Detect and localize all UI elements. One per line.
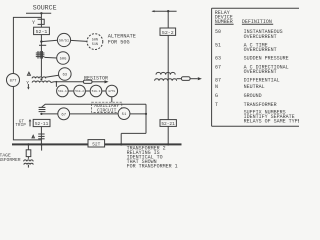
svg-text:FOR TRANSFORMER 1: FOR TRANSFORMER 1 bbox=[127, 164, 178, 169]
VT winding secondary bbox=[24, 163, 33, 164]
wire feeder 2 drop bbox=[167, 11, 169, 28]
svg-text:51G-3: 51G-3 bbox=[92, 90, 101, 93]
relay 50/51 bbox=[57, 33, 70, 46]
VT winding primary bbox=[24, 160, 34, 162]
CT below 52-11 bbox=[38, 134, 44, 139]
feeder stub bbox=[41, 145, 43, 150]
svg-text:TRANSFORMER: TRANSFORMER bbox=[0, 157, 21, 163]
transformer T1 secondary winding bbox=[32, 81, 51, 83]
junction bus 1 bbox=[40, 12, 42, 14]
incoming bus 2 bbox=[153, 10, 177, 12]
svg-text:52-1: 52-1 bbox=[36, 29, 48, 35]
CT bar mark bbox=[39, 44, 46, 46]
junction riser bbox=[145, 113, 147, 115]
T2 neutral grounding resistor R2 bbox=[181, 77, 190, 81]
relay 63 sudden pressure bbox=[59, 68, 72, 81]
VT stub bbox=[27, 165, 29, 168]
svg-text:SOURCE: SOURCE bbox=[33, 5, 57, 12]
header underlines bbox=[215, 23, 234, 25]
relay 67 bbox=[58, 108, 70, 120]
VT wire bbox=[27, 145, 29, 158]
svg-text:50/51: 50/51 bbox=[59, 38, 69, 42]
wire 63 to transformer tank bbox=[45, 75, 58, 77]
bus junction dots bbox=[27, 143, 29, 145]
svg-text:51G-2: 51G-2 bbox=[75, 90, 84, 93]
svg-text:N: N bbox=[215, 84, 218, 90]
svg-text:SUDDEN PRESSURE: SUDDEN PRESSURE bbox=[244, 56, 289, 62]
wire 67 relay line bbox=[41, 113, 146, 115]
svg-text:FOR 50G: FOR 50G bbox=[108, 40, 130, 46]
svg-text:GROUND: GROUND bbox=[244, 93, 262, 99]
transformer T2 primary winding bbox=[156, 72, 175, 74]
svg-text:52-21: 52-21 bbox=[161, 121, 175, 127]
svg-text:52-11: 52-11 bbox=[35, 121, 49, 127]
svg-text:51N: 51N bbox=[92, 43, 98, 47]
svg-text:63: 63 bbox=[215, 56, 221, 62]
svg-text:TRANSFORMER: TRANSFORMER bbox=[244, 102, 277, 108]
wire neutral to ground arrow bbox=[92, 81, 105, 83]
wire riser down bbox=[145, 104, 147, 133]
relay 51 bbox=[118, 108, 130, 120]
neutral grounding resistor R1 bbox=[83, 80, 92, 83]
relay 50G bbox=[57, 52, 70, 65]
table header bbox=[215, 10, 272, 25]
transformer T1 primary winding bbox=[32, 77, 46, 79]
svg-text:CIRCUIT: CIRCUIT bbox=[97, 107, 117, 113]
junction bus 2 bbox=[167, 10, 169, 12]
relay 51G-3 bbox=[90, 85, 102, 97]
svg-text:RELAYS OF SAME TYPE: RELAYS OF SAME TYPE bbox=[244, 118, 299, 124]
relay 87TG bbox=[106, 85, 118, 97]
junction between windings bbox=[40, 78, 42, 80]
svg-text:T: T bbox=[215, 102, 218, 108]
junction neutral CT drop bbox=[56, 81, 58, 83]
auxiliary circuit box bbox=[92, 102, 122, 112]
T2 neutral wire bbox=[177, 78, 182, 80]
wire tap to 50/51 bbox=[41, 40, 57, 41]
table left border bbox=[211, 8, 213, 126]
wire bbox=[85, 90, 90, 92]
breaker 52-11 bbox=[33, 119, 50, 126]
relay 87T bbox=[7, 74, 20, 87]
wire bbox=[102, 90, 106, 92]
wire below 52-21 bbox=[167, 126, 169, 143]
svg-text:50G: 50G bbox=[60, 57, 67, 61]
wire below 52-2 bbox=[167, 35, 169, 119]
wire branch to 87T bbox=[13, 17, 41, 73]
svg-text:NEUTRAL: NEUTRAL bbox=[244, 84, 265, 90]
T1 neutral wire bbox=[51, 81, 83, 84]
svg-text:TRIP: TRIP bbox=[15, 124, 26, 128]
svg-text:50: 50 bbox=[215, 29, 221, 35]
svg-text:87T: 87T bbox=[10, 79, 17, 83]
svg-text:63: 63 bbox=[62, 74, 67, 78]
wire differential return bbox=[13, 86, 41, 139]
delta CT label bbox=[32, 135, 34, 138]
wire drop to 51G chain bbox=[55, 82, 57, 87]
svg-text:OVERCURRENT: OVERCURRENT bbox=[244, 47, 277, 53]
breaker 52-2 bbox=[160, 28, 176, 35]
CT hash for 50G bbox=[36, 51, 45, 59]
note transformer 2 bbox=[127, 145, 178, 169]
wire to 50G bbox=[44, 56, 56, 59]
svg-text:87: 87 bbox=[215, 78, 221, 84]
svg-text:OVERCURRENT: OVERCURRENT bbox=[244, 34, 277, 40]
junction main to 67 bbox=[40, 113, 42, 115]
junction 50/51 tap bbox=[40, 40, 42, 42]
svg-text:Y: Y bbox=[32, 20, 35, 26]
relay 51G-2 bbox=[74, 85, 86, 97]
wire step down to bus bbox=[120, 133, 122, 143]
table bottom border bbox=[212, 125, 299, 127]
disconnect symbol bbox=[38, 19, 45, 24]
transformer T2 secondary winding bbox=[155, 79, 177, 81]
svg-text:67: 67 bbox=[215, 65, 221, 71]
wire step left bbox=[121, 132, 146, 134]
relay 51G-1 bbox=[57, 85, 69, 97]
svg-text:67: 67 bbox=[61, 113, 66, 117]
wire feeder 1 main drop bbox=[40, 13, 42, 27]
wire bbox=[68, 90, 74, 92]
svg-text:G: G bbox=[215, 93, 218, 99]
wire CT tap to trip riser bbox=[42, 104, 146, 107]
relay 50N/51N alternate dashed bbox=[87, 34, 103, 50]
T1 neutral ground arrow bbox=[27, 84, 29, 87]
svg-text:DIFFERENTIAL: DIFFERENTIAL bbox=[244, 78, 280, 84]
svg-text:52-2: 52-2 bbox=[162, 30, 174, 36]
wire 87TG to auxiliary circuit bbox=[111, 97, 113, 102]
svg-text:OVERCURRENT: OVERCURRENT bbox=[244, 69, 277, 75]
transformer T1 delta label bbox=[27, 72, 30, 75]
svg-text:52T: 52T bbox=[92, 141, 100, 147]
trip arrow bbox=[29, 121, 31, 126]
wire below 52-11 bbox=[40, 127, 42, 144]
wire to alternate relay bbox=[71, 40, 87, 41]
table rows bbox=[215, 29, 301, 124]
svg-text:51: 51 bbox=[215, 43, 221, 49]
breaker 52-1 bbox=[34, 27, 50, 34]
CT on secondary main bbox=[39, 107, 46, 111]
wire T2 neutral ground arrow bbox=[190, 78, 198, 80]
incoming bus 1 bbox=[26, 12, 51, 14]
svg-text:51: 51 bbox=[122, 113, 127, 117]
tie breaker 52T bbox=[88, 140, 105, 147]
table top border bbox=[212, 7, 299, 9]
breaker 52-21 bbox=[160, 120, 176, 127]
wire below 52-1 bbox=[40, 35, 42, 77]
secondary bus bbox=[12, 143, 182, 145]
svg-text:87TG: 87TG bbox=[108, 90, 115, 93]
svg-text:51G-1: 51G-1 bbox=[58, 90, 67, 93]
VT fuse bbox=[26, 150, 31, 157]
